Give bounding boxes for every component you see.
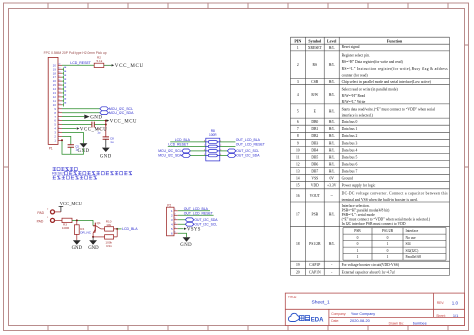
wire R4 to ground — [76, 234, 78, 240]
P2 pin 5 — [171, 227, 178, 231]
svg-text:Data bus 1: Data bus 1 — [342, 127, 358, 131]
P1 pin 17 no-connect stub — [62, 75, 66, 79]
wire R8 row3 to bubble — [220, 150, 228, 152]
wire net LCD_RESET pin20 to R2 — [62, 64, 94, 66]
transistor Q1 — [93, 223, 101, 233]
svg-text:VOUT: VOUT — [310, 194, 321, 198]
wire R8 row1 to OUT_LCD_BLA — [220, 141, 236, 143]
svg-text:VCC_MCU: VCC_MCU — [115, 64, 144, 69]
note (chinese) line 3 — [53, 176, 97, 179]
svg-text:OUT_LCD_BLA: OUT_LCD_BLA — [184, 207, 209, 211]
resistor R2 — [94, 63, 104, 67]
svg-text:14: 14 — [58, 87, 60, 89]
svg-text:LCD_BLA: LCD_BLA — [122, 227, 138, 231]
wire P1 pin1 ground loop — [62, 140, 84, 154]
svg-text:VDD: VDD — [311, 184, 319, 188]
P1 pin 11 — [53, 99, 62, 103]
wire to LCD_BLA label — [117, 228, 121, 230]
P1 pin 14 — [53, 87, 62, 91]
net port bubble OUT_I2C_SCL — [227, 149, 236, 153]
svg-text:OUT_I2C_SCL: OUT_I2C_SCL — [236, 149, 259, 153]
R8 element row 2 — [204, 145, 221, 148]
svg-text:VCC_MCU: VCC_MCU — [60, 201, 83, 206]
svg-text:1: 1 — [357, 255, 359, 259]
svg-text:1u: 1u — [76, 148, 80, 152]
svg-text:CAP1P: CAP1P — [309, 263, 320, 267]
table row pin 1 (XRESET) — [297, 46, 336, 50]
svg-text:9: 9 — [58, 107, 59, 109]
svg-text:In I2C interface PSB must conn: In I2C interface PSB must connect to VDD — [342, 222, 406, 226]
svg-text:Sheet:: Sheet: — [436, 314, 446, 318]
junction at P1 pin1 — [61, 139, 63, 141]
svg-text:PS1/2B: PS1/2B — [382, 229, 394, 233]
svg-text:3: 3 — [175, 218, 176, 220]
wire P1 pin3 down to ground — [62, 132, 84, 143]
svg-text:Data bus 5: Data bus 5 — [342, 155, 358, 159]
svg-text:H/L: H/L — [329, 148, 336, 152]
P1 pin 7 — [54, 115, 62, 119]
wire bubble to R8 row3 — [190, 150, 205, 152]
table row pin 6 (DB0) — [297, 120, 336, 124]
wire net LCD_BLA to R8 — [170, 141, 206, 143]
EasyEDA logo — [288, 313, 324, 323]
table row pin 20 (CAP1N) — [296, 270, 333, 274]
svg-text:H/L: H/L — [329, 213, 336, 217]
svg-text:Sheet_1: Sheet_1 — [312, 299, 331, 305]
svg-text:Data bus 2: Data bus 2 — [342, 134, 358, 138]
svg-text:OUT_I2C_SDA: OUT_I2C_SDA — [194, 218, 218, 222]
svg-text:H/L: H/L — [329, 46, 336, 50]
svg-text:OUT_I2C_SDA: OUT_I2C_SDA — [236, 154, 260, 158]
svg-text:SI4: SI4 — [406, 242, 411, 246]
svg-text:H/L: H/L — [329, 170, 336, 174]
svg-text:7: 7 — [58, 115, 59, 117]
svg-text:DB4: DB4 — [311, 148, 318, 152]
svg-text:Starts data read/write.(“E” mu: Starts data read/write.(“E” must connect… — [342, 106, 435, 111]
svg-text:RESET: RESET — [52, 171, 66, 176]
svg-text:11: 11 — [296, 155, 300, 159]
svg-text:0: 0 — [357, 236, 359, 240]
connector P2 body — [167, 207, 175, 236]
connector P1 body — [48, 57, 58, 144]
net port bubble OUT_I2C_SCL (P2) — [185, 222, 194, 226]
svg-text:5: 5 — [175, 227, 176, 229]
table row pin 19 (CAP1P) — [296, 263, 333, 267]
junction emitter/R11/gnd — [92, 236, 94, 238]
net port bubble MCU_I2C_SDA — [100, 111, 109, 115]
P1 pin 15 no-connect stub — [62, 82, 66, 86]
wire net MCU_I2C_SCL from P1 pin 9 — [62, 108, 100, 110]
P1 pin 12 no-connect stub — [62, 94, 66, 98]
svg-text:Data bus 3: Data bus 3 — [342, 141, 358, 145]
svg-text:MCU_I2C_SCL: MCU_I2C_SCL — [158, 149, 181, 153]
svg-text:1: 1 — [357, 249, 359, 253]
P1 pin 15 — [53, 83, 62, 87]
wire P1 pin7 to GND — [62, 116, 84, 118]
svg-text:Q1: Q1 — [97, 221, 101, 225]
resistor R4 — [74, 225, 79, 235]
svg-text:8: 8 — [297, 134, 299, 138]
P2 pin 4 — [171, 222, 178, 226]
svg-text:XRESET: XRESET — [308, 46, 323, 50]
P1 pin 6 — [54, 119, 62, 123]
svg-text:3: 3 — [297, 80, 299, 84]
svg-text:R/W: R/W — [311, 93, 318, 97]
svg-text:Power supply for logic: Power supply for logic — [342, 184, 376, 188]
resistor R10 — [105, 227, 114, 231]
svg-text:OUT_LCD_RESET: OUT_LCD_RESET — [184, 212, 213, 216]
svg-text:1: 1 — [175, 209, 176, 211]
svg-text:16: 16 — [58, 79, 60, 81]
svg-text:Level: Level — [327, 38, 337, 43]
svg-text:5: 5 — [297, 110, 299, 114]
wire R3 to Q1 base node — [72, 220, 93, 225]
svg-text:Interface: Interface — [406, 229, 419, 233]
wire P2 pin5 to VSYS flag — [178, 228, 184, 230]
svg-text:PAD: PAD — [37, 211, 44, 215]
svg-text:1/1: 1/1 — [453, 313, 458, 318]
svg-text:OUT_I2C_SCL: OUT_I2C_SCL — [194, 223, 217, 227]
svg-text:(“E” must connect to “VDD” whe: (“E” must connect to “VDD” when serial m… — [342, 217, 431, 222]
wire P1 pin4 to VCC_MCU flag — [62, 128, 76, 130]
svg-text:DB1: DB1 — [311, 127, 318, 131]
svg-text:OUT_LCD_BLA: OUT_LCD_BLA — [236, 138, 261, 142]
wire R2 to VCC_MCU flag — [104, 64, 112, 66]
P1 pin 18 no-connect stub — [62, 71, 66, 75]
P1 pin 10 no-connect stub — [62, 102, 66, 106]
svg-text:Parallel 68: Parallel 68 — [406, 255, 422, 259]
ground (sideways) at P1 pin7 — [84, 114, 89, 118]
net port bubble MCU_I2C_SCL — [182, 149, 191, 153]
svg-text:H/L: H/L — [329, 155, 336, 159]
wire PAD2 to VCC stem — [55, 211, 61, 213]
svg-text:4: 4 — [297, 93, 299, 97]
wire PAD1 to R3 — [55, 219, 62, 221]
svg-text:RS=“H” Data register(for write: RS=“H” Data register(for write and read) — [342, 59, 404, 64]
P1 pin 3 — [54, 131, 62, 135]
svg-text:15: 15 — [296, 184, 300, 188]
svg-text:H/L: H/L — [329, 80, 336, 84]
svg-text:MCU_I2C_SDA: MCU_I2C_SDA — [158, 154, 182, 158]
svg-text:DB7: DB7 — [311, 170, 318, 174]
P1 pin 13 no-connect stub — [62, 90, 66, 94]
table row pin 3 (CSB) — [297, 80, 336, 84]
svg-text:12: 12 — [296, 163, 300, 167]
svg-text:15: 15 — [58, 83, 60, 85]
power flag +VSYS — [184, 228, 187, 230]
svg-text:DB6: DB6 — [311, 163, 318, 167]
svg-text:OUT_LCD_RESET: OUT_LCD_RESET — [236, 143, 265, 147]
svg-text:18: 18 — [58, 72, 60, 74]
svg-text:DB5: DB5 — [311, 155, 318, 159]
wire Q1 collector to R10 — [101, 228, 105, 230]
wire bubble to R8 row4 — [190, 154, 205, 156]
P1 pin 1 — [54, 138, 62, 142]
svg-text:VCC_MCU: VCC_MCU — [110, 119, 137, 124]
table row pin 7 (DB1) — [297, 127, 336, 131]
svg-text:GND: GND — [100, 154, 112, 159]
svg-text:PIN: PIN — [294, 38, 301, 43]
wire R8 row2 to OUT_LCD_RESET — [220, 145, 236, 147]
svg-text:GND: GND — [90, 116, 102, 121]
svg-text:LCD_RESET: LCD_RESET — [168, 143, 188, 147]
svg-text:R/W=“L” Write: R/W=“L” Write — [342, 99, 366, 104]
svg-text:0: 0 — [357, 242, 359, 246]
svg-text:Data bus 7: Data bus 7 — [342, 170, 358, 174]
svg-text:H/L: H/L — [329, 242, 336, 246]
P1 pin 18 — [53, 71, 62, 75]
P1 pin 19 no-connect stub — [62, 67, 66, 71]
svg-text:12: 12 — [58, 95, 60, 97]
wire C8 to ground — [105, 139, 107, 147]
svg-text:17: 17 — [296, 213, 300, 217]
net port bubble MCU_I2C_SCL — [100, 107, 109, 111]
svg-text:1: 1 — [58, 139, 59, 141]
wire P2 pin4 to bubble — [178, 223, 186, 225]
table row pin 8 (DB2) — [297, 134, 336, 138]
wire VCC column down to C8 — [105, 121, 107, 137]
table row pin 9 (DB3) — [297, 141, 336, 145]
svg-text:MCU_I2C_SDA: MCU_I2C_SDA — [109, 111, 134, 115]
P1 pin 5 — [54, 123, 62, 127]
ground at P1 pin3 — [80, 143, 88, 147]
table row pin 11 (DB5) — [296, 155, 335, 159]
embedded PSB interface table — [343, 228, 446, 261]
svg-text:8: 8 — [58, 111, 59, 113]
svg-text:H/L: H/L — [329, 110, 336, 114]
svg-text:P2: P2 — [167, 203, 171, 207]
svg-text:6: 6 — [297, 120, 299, 124]
capacitor C5 — [68, 145, 74, 147]
P1 pin 4 — [54, 127, 62, 131]
capacitor C4 — [92, 122, 94, 128]
wire emitter junction to ground — [92, 237, 94, 240]
svg-text:REV:: REV: — [437, 301, 445, 305]
wire C4 to VCC node column — [95, 124, 106, 126]
svg-text:2: 2 — [58, 135, 59, 137]
junction node base/R4 — [76, 219, 78, 221]
pad PAD1 — [51, 218, 55, 222]
svg-text:0: 0 — [387, 236, 389, 240]
svg-text:19: 19 — [58, 68, 60, 70]
svg-text:VSS: VSS — [311, 177, 318, 181]
pad PAD2 — [51, 210, 55, 214]
svg-text:R/W=“H” Read: R/W=“H” Read — [342, 93, 366, 98]
svg-text:4: 4 — [175, 223, 176, 225]
svg-text:Chip select in parallel mode a: Chip select in parallel mode and serial … — [342, 80, 432, 84]
svg-text:GND: GND — [88, 246, 99, 251]
table row pin 13 (DB7) — [296, 170, 335, 174]
svg-text:20: 20 — [58, 64, 60, 66]
resistor R11 — [105, 235, 114, 239]
power flag VCC_MCU (pin20) — [112, 64, 115, 66]
P1 pin 8 — [54, 111, 62, 115]
svg-text:bumbee: bumbee — [413, 320, 427, 325]
junction LCD_BLA node — [116, 228, 118, 230]
svg-text:LCD_BLA: LCD_BLA — [175, 138, 191, 142]
svg-text:Data bus 0: Data bus 0 — [342, 120, 358, 124]
svg-text:14: 14 — [296, 177, 300, 181]
svg-text:+3.3V: +3.3V — [327, 184, 337, 188]
svg-text:No use: No use — [406, 236, 416, 240]
svg-text:6: 6 — [175, 232, 176, 234]
svg-text:interface is selected.): interface is selected.) — [342, 114, 374, 118]
P2 pin 1 — [171, 209, 178, 213]
function cell texts — [342, 45, 449, 274]
net port bubble OUT_I2C_SDA — [227, 154, 236, 158]
wire P1 pin6 to VCC_MCU node — [62, 120, 106, 122]
svg-text:1: 1 — [387, 255, 389, 259]
svg-text:Select read or write (in paral: Select read or write (in parallel mode) — [342, 88, 399, 92]
table row pin 12 (DB6) — [296, 163, 335, 167]
svg-text:20: 20 — [296, 270, 300, 274]
svg-text:H/L: H/L — [329, 63, 336, 67]
svg-text:VCC_MCU: VCC_MCU — [80, 127, 107, 132]
svg-text:Data bus 4: Data bus 4 — [342, 148, 358, 152]
svg-text:6: 6 — [58, 119, 59, 121]
wire junction to R11 — [93, 236, 105, 238]
svg-text:PSB=“H”:parallel mode(4/8 bit): PSB=“H”:parallel mode(4/8 bit) — [342, 207, 391, 212]
P1 pin 2 — [54, 135, 62, 139]
svg-text:EDA: EDA — [311, 317, 324, 323]
wire P2 pin1 net OUT_LCD_BLA — [178, 210, 210, 212]
svg-text:Date:: Date: — [331, 319, 339, 323]
resistor network R8 body — [206, 138, 220, 161]
junction node VCC_MCU — [105, 120, 107, 122]
P1 pin 16 no-connect stub — [62, 79, 66, 83]
wire net LCD_RESET to R8 — [168, 145, 206, 147]
svg-text:Reset signal: Reset signal — [342, 45, 360, 49]
table row pin 2 (RS) — [297, 63, 336, 67]
svg-text:5: 5 — [58, 123, 59, 125]
junction on VCC column — [105, 124, 107, 126]
svg-text:Company:: Company: — [331, 312, 346, 316]
ground below Q1 — [89, 240, 97, 244]
svg-text:PAD: PAD — [37, 219, 44, 223]
power flag VCC_MCU (pin6) — [107, 119, 110, 121]
svg-text:PSB=“L”: serial mode: PSB=“L”: serial mode — [342, 212, 376, 217]
svg-text:7: 7 — [297, 127, 299, 131]
wire node down to R4 — [76, 220, 78, 224]
svg-text:TITLE:: TITLE: — [288, 295, 297, 299]
svg-text:13: 13 — [296, 170, 300, 174]
svg-text:RS: RS — [313, 63, 318, 67]
wire Q1 emitter down — [92, 233, 94, 237]
svg-text:1: 1 — [297, 46, 299, 50]
table row pin 5 (E) — [297, 110, 336, 114]
note (chinese) line 1 — [53, 167, 78, 170]
ground below C8 — [102, 148, 110, 152]
P1 pin 19 — [53, 67, 62, 71]
svg-text:Function: Function — [387, 38, 403, 43]
svg-text:PSB: PSB — [312, 213, 319, 217]
wire net MCU_I2C_SDA from P1 pin 8 — [62, 112, 100, 114]
svg-text:DC-DC voltage converter. Conne: DC-DC voltage converter. Connect a capac… — [342, 192, 449, 196]
svg-text:Drawn By:: Drawn By: — [389, 321, 404, 325]
svg-text:DR_NC: DR_NC — [80, 231, 91, 235]
wire P2 pin2 net OUT_LCD_RESET — [178, 214, 214, 216]
svg-text:18: 18 — [296, 242, 300, 246]
capacitor C8 — [103, 137, 109, 139]
net port bubble MCU_I2C_SDA — [182, 154, 191, 158]
ground at P2 pin6 — [183, 237, 191, 241]
P1 pin 10 — [53, 103, 62, 107]
svg-text:16: 16 — [296, 194, 300, 198]
svg-text:2: 2 — [175, 214, 176, 216]
svg-text:11: 11 — [58, 99, 60, 101]
table row pin 4 (R/W) — [297, 93, 336, 97]
svg-text:1: 1 — [387, 242, 389, 246]
svg-text:17: 17 — [58, 76, 60, 78]
svg-text:DB3: DB3 — [311, 141, 318, 145]
net port bubble OUT_I2C_SDA (P2) — [185, 218, 194, 222]
wire P1 pin2 to capacitor C5 — [62, 136, 71, 144]
table row pin 17 (PSB) — [296, 213, 335, 217]
svg-text:3: 3 — [58, 131, 59, 133]
svg-text:Ground: Ground — [342, 177, 353, 181]
svg-text:PS1/2B: PS1/2B — [309, 242, 321, 246]
svg-text:External capacitor about 0.1u~: External capacitor about 0.1u~4.7uf — [342, 270, 396, 274]
svg-text:CSB: CSB — [311, 80, 319, 84]
svg-text:1u: 1u — [110, 140, 114, 144]
svg-text:terminal and VSS when the buil: terminal and VSS when the built-in boost… — [342, 198, 418, 202]
svg-text:H/L: H/L — [329, 141, 336, 145]
wire R8 row4 to bubble — [220, 154, 228, 156]
svg-text:DB0: DB0 — [311, 120, 318, 124]
P1 pin 11 no-connect stub — [62, 98, 66, 102]
svg-text:H/L: H/L — [329, 93, 336, 97]
svg-text:Your Company: Your Company — [351, 312, 375, 316]
svg-text:Symbol: Symbol — [308, 38, 322, 43]
svg-text:100R: 100R — [209, 133, 217, 137]
svg-text:10k: 10k — [106, 223, 111, 227]
svg-text:For voltage booster circuit(VD: For voltage booster circuit(VDD-VSS) — [342, 263, 400, 267]
P1 pin 9 — [54, 107, 62, 111]
svg-text:19: 19 — [296, 263, 300, 267]
wire P2 pin6 down to ground — [178, 233, 187, 237]
wire P2 pin3 to bubble — [178, 219, 186, 221]
table row pin 18 (PS1/2B) — [296, 242, 335, 246]
R8 element row 4 — [204, 154, 221, 157]
sheet border ticks sides — [4, 45, 469, 167]
table row pin 14 (VSS) — [296, 177, 334, 181]
P1 pin 16 — [53, 79, 62, 83]
P2 pin 6 — [171, 231, 178, 235]
svg-text:2: 2 — [297, 63, 299, 67]
svg-text:2020-08-20: 2020-08-20 — [350, 318, 371, 323]
svg-text:VSYS: VSYS — [187, 228, 201, 233]
svg-text:counter (for read): counter (for read) — [342, 73, 369, 77]
R8 element row 1 — [204, 141, 221, 144]
svg-text:Data bus 6: Data bus 6 — [342, 163, 358, 167]
svg-text:CAP1N: CAP1N — [309, 270, 321, 274]
svg-text:0: 0 — [387, 249, 389, 253]
P2 pin 2 — [171, 214, 178, 218]
svg-text:1.0: 1.0 — [452, 300, 459, 305]
wire R10/R11 right ends to LCD_BLA — [114, 229, 118, 237]
svg-text:10: 10 — [296, 148, 300, 152]
svg-text:H/L: H/L — [329, 134, 336, 138]
svg-text:0V: 0V — [329, 177, 334, 181]
svg-text:H/L: H/L — [329, 120, 336, 124]
svg-text:9: 9 — [297, 141, 299, 145]
svg-text:R11: R11 — [106, 244, 112, 248]
svg-text:H/L: H/L — [329, 127, 336, 131]
ground below R4 — [73, 240, 81, 244]
svg-text:Interface selection.: Interface selection. — [342, 204, 370, 208]
svg-text:H/L: H/L — [329, 163, 336, 167]
P1 pin 20 — [53, 63, 62, 67]
